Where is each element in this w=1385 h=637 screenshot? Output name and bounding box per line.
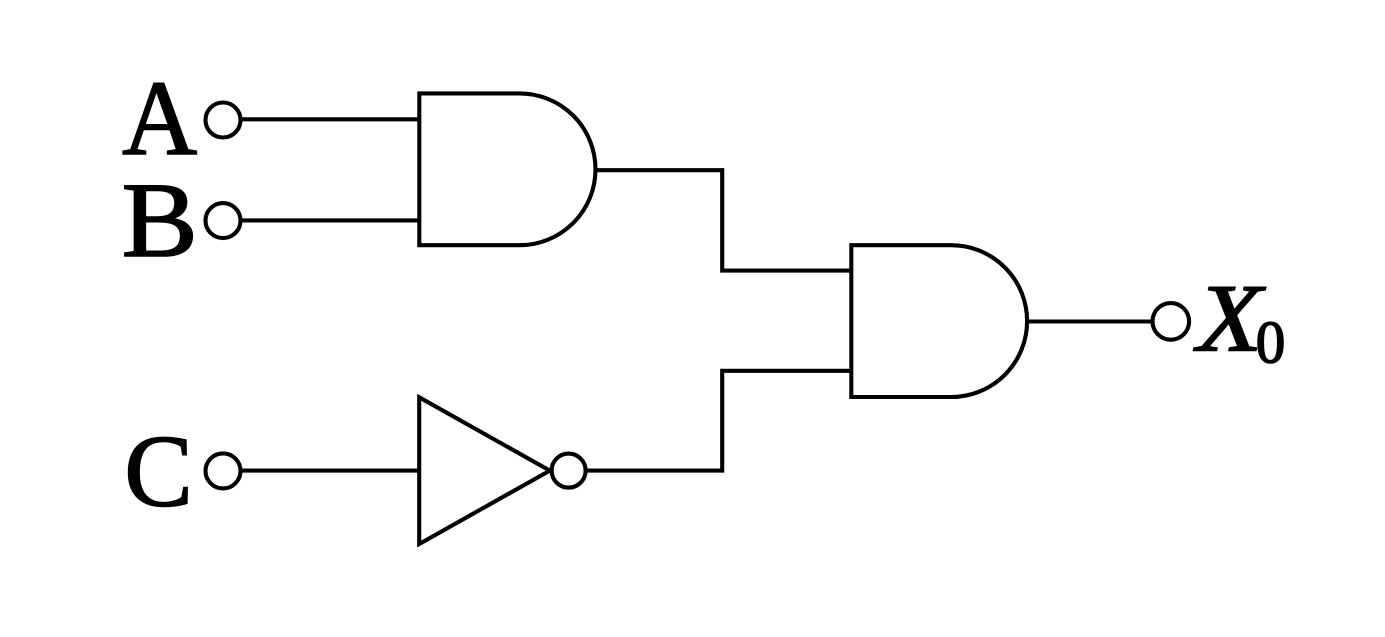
terminal X0 (1153, 303, 1190, 340)
terminal A (206, 103, 241, 138)
wire U2 output to terminal X0 (1025, 319, 1153, 323)
wire B to AND gate U1 (241, 218, 420, 222)
wire C to inverter U3 (241, 469, 420, 473)
wire A to AND gate U1 (241, 117, 420, 121)
AND gate U2 (851, 245, 1027, 397)
svg-text:C: C (124, 414, 192, 528)
terminal C (206, 453, 241, 488)
inverter U3 triangle (419, 397, 550, 544)
terminal B (206, 203, 241, 238)
svg-text:B: B (122, 160, 198, 279)
inverter U3 bubble (552, 454, 586, 488)
AND gate U1 (419, 93, 595, 245)
svg-text:0: 0 (1256, 309, 1286, 376)
wire U1 output to vertical jog (594, 170, 852, 270)
wire inverter output to vertical jog up to AND gate U2 (586, 371, 852, 471)
